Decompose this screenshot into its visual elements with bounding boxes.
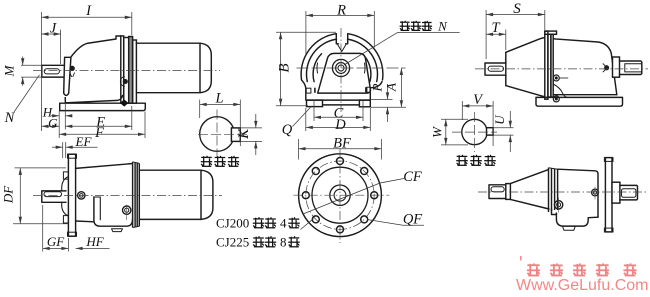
label: input shaft (Chinese) [456, 155, 496, 166]
dim M [2, 57, 42, 86]
dim DF [1, 168, 68, 224]
dim V [462, 92, 493, 146]
svg-text:K: K [236, 128, 252, 140]
view 2: gearbox front view outline [301, 34, 383, 82]
view 7: input shaft section circle [452, 112, 497, 152]
label: internal thread N (Chinese) with leader [344, 19, 460, 66]
oil plug dot on boss [70, 66, 75, 71]
note: CJ225 and above 8 holes (Chinese) [216, 235, 300, 250]
label Q with leader [282, 107, 311, 138]
svg-text:Q: Q [282, 122, 293, 138]
svg-text:B: B [277, 63, 293, 72]
svg-text:8: 8 [280, 235, 287, 250]
oil level plug on flange [123, 79, 128, 84]
dim B [276, 32, 336, 106]
svg-text:D: D [334, 117, 346, 133]
svg-text:HF: HF [85, 234, 104, 249]
svg-text:BF: BF [333, 135, 351, 151]
view 1 centerline [33, 70, 220, 72]
dim T [486, 20, 506, 50]
view 4: output shaft section circle [198, 110, 250, 159]
view 6 centerlines [293, 149, 389, 243]
dim BF [299, 135, 382, 159]
svg-text:N: N [4, 110, 16, 126]
inner chamber wall (trapezoid) [318, 53, 371, 93]
dim H [42, 105, 72, 120]
note: CJ200 and below 4 holes (Chinese) [216, 216, 313, 231]
hub circles (shaft bore) [317, 59, 365, 76]
svg-text:R: R [336, 3, 346, 19]
dim J [42, 21, 61, 64]
dim K [236, 114, 262, 155]
flange bolt holes x8 [302, 158, 377, 233]
svg-text:T: T [491, 20, 500, 36]
red watermark: GeLufu Machinery (Chinese) [527, 263, 637, 276]
drain plug diamond [120, 99, 128, 106]
dim A [371, 68, 407, 107]
svg-text:W: W [430, 126, 445, 138]
view 5: flange-mounted gearmotor side view outline [42, 154, 213, 236]
dim GF [43, 205, 69, 252]
view 3 centerline [475, 68, 648, 70]
dim S [486, 1, 545, 59]
dim C [314, 100, 363, 122]
svg-text:M: M [2, 64, 17, 77]
dim W [430, 119, 469, 145]
top filler notch with arrow [336, 34, 347, 52]
view 5 centerline [33, 195, 222, 197]
dim D [306, 108, 371, 133]
svg-text:CF: CF [403, 169, 422, 185]
svg-text:G: G [48, 115, 58, 130]
dim EF [52, 134, 98, 158]
svg-text:Www.GeLufu.Com: Www.GeLufu.Com [516, 277, 648, 294]
label: output shaft (Chinese) [201, 156, 239, 167]
dim R [306, 3, 374, 54]
svg-text:GF: GF [47, 234, 65, 249]
label N with leader [4, 75, 40, 126]
dim P [370, 83, 390, 122]
svg-text:A: A [384, 83, 399, 92]
label QF with leader [367, 212, 424, 228]
svg-text:U: U [492, 114, 507, 125]
view 2 lower body, side tabs and feet [302, 80, 382, 107]
dim HF [76, 234, 110, 250]
dim E [65, 104, 132, 131]
svg-text:L: L [214, 90, 223, 106]
view 3: reducer side view outline [485, 31, 642, 106]
view 3 bolt dots [553, 75, 568, 102]
svg-text:DF: DF [1, 185, 16, 204]
svg-text:CJ200: CJ200 [216, 216, 249, 231]
svg-text:EF: EF [75, 134, 93, 149]
view 1: foot-mounted gearmotor side view outline [33, 36, 220, 111]
svg-text:N: N [437, 19, 448, 34]
svg-text:4: 4 [280, 216, 287, 231]
dim G [42, 111, 60, 138]
svg-text:F: F [94, 125, 104, 141]
svg-text:P: P [370, 83, 385, 92]
view 8 bolt dots [554, 187, 598, 213]
svg-text:J: J [50, 21, 57, 37]
dim I [42, 3, 132, 131]
view 3 pin dot [603, 63, 609, 72]
small red tick [520, 256, 522, 261]
dim F [59, 112, 145, 142]
dim U [492, 111, 514, 152]
svg-text:QF: QF [403, 212, 422, 228]
dim L [200, 90, 241, 146]
view 8 centerline [478, 191, 647, 193]
view 5 bolt dots [78, 192, 131, 220]
view 6: output flange front view circles [299, 154, 382, 237]
view 8: flange-mounted reducer side view outline [489, 158, 638, 232]
svg-text:CJ225: CJ225 [216, 235, 249, 250]
svg-text:S: S [513, 1, 521, 17]
view 2 centerlines [297, 28, 406, 112]
label CF with leader [303, 169, 422, 214]
